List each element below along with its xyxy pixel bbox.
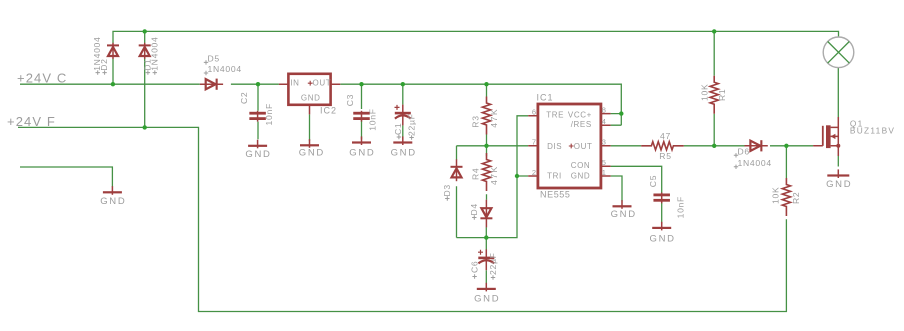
svg-text:+24V C: +24V C [17,71,67,86]
svg-text:10nF: 10nF [367,108,377,130]
svg-text:47K: 47K [489,165,499,185]
svg-text:10nF: 10nF [264,103,274,125]
svg-text:4: 4 [602,117,606,126]
svg-text:1N4004: 1N4004 [208,64,242,74]
svg-text:GND: GND [474,294,500,305]
svg-text:D6: D6 [738,147,750,157]
svg-text:D3: D3 [442,184,452,196]
svg-text:CON: CON [571,161,591,170]
svg-text:5: 5 [602,158,606,167]
svg-text:GND: GND [649,234,675,245]
svg-text:D5: D5 [208,54,220,64]
svg-text:C6: C6 [469,261,479,273]
svg-text:GND: GND [391,148,417,159]
svg-text:R5: R5 [659,151,671,161]
svg-text:GND: GND [611,209,637,220]
svg-text:TRI: TRI [547,172,562,181]
svg-text:IC1: IC1 [537,93,554,103]
svg-text:GND: GND [826,179,852,190]
svg-text:GND: GND [245,149,271,160]
svg-text:C5: C5 [648,175,658,187]
svg-text:BUZ11BV: BUZ11BV [850,126,895,136]
svg-text:/RES: /RES [571,120,592,129]
svg-text:OUT: OUT [574,142,593,151]
svg-text:10K: 10K [699,84,709,101]
svg-text:GND: GND [349,148,375,159]
svg-text:3: 3 [602,138,606,147]
svg-text:R3: R3 [471,115,481,127]
svg-text:47: 47 [660,131,671,141]
svg-text:1: 1 [602,168,606,177]
svg-text:R4: R4 [471,168,481,180]
svg-text:GND: GND [100,196,126,207]
svg-text:10nF: 10nF [675,196,685,218]
svg-text:NE555: NE555 [540,190,571,200]
svg-text:22µF: 22µF [407,113,417,136]
svg-text:D2: D2 [99,58,109,70]
svg-text:GND: GND [571,172,591,181]
svg-text:1N4004: 1N4004 [738,158,772,168]
svg-text:DIS: DIS [547,142,562,151]
svg-text:C2: C2 [239,92,249,104]
svg-text:IC2: IC2 [320,105,337,115]
svg-text:IN: IN [290,78,299,87]
svg-text:R2: R2 [791,192,801,204]
svg-text:7: 7 [532,138,536,147]
svg-text:R1: R1 [717,89,727,101]
svg-text:OUT: OUT [313,78,332,87]
svg-text:1N4004: 1N4004 [149,36,159,70]
svg-text:C1: C1 [393,123,403,135]
svg-text:22µF: 22µF [488,252,498,275]
svg-text:GND: GND [299,147,325,158]
svg-text:D4: D4 [469,203,479,215]
svg-text:6: 6 [532,108,536,117]
svg-text:2: 2 [532,168,536,177]
svg-text:TRE: TRE [546,111,564,120]
svg-text:8: 8 [602,106,606,115]
svg-text:GND: GND [301,93,321,102]
svg-text:10K: 10K [770,187,780,204]
svg-text:47K: 47K [489,108,499,128]
svg-text:VCC+: VCC+ [568,111,592,120]
svg-text:C3: C3 [345,94,355,106]
svg-text:+24V F: +24V F [7,114,56,129]
